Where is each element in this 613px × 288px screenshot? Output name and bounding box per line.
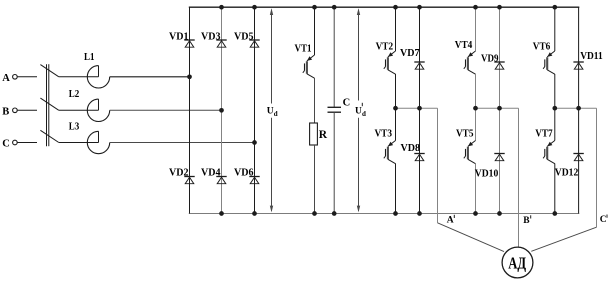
diode VD11 (573, 62, 583, 69)
node top rail x=221.5 (219, 5, 224, 10)
rectifier leg 3 wire (254, 7, 256, 213)
svg-text:АД: АД (508, 253, 526, 272)
label AD (508, 253, 526, 272)
transistor VT2 (384, 51, 396, 74)
diode VD2 (184, 177, 194, 184)
wire C terminal to switch (17, 142, 37, 144)
transistor VT6 (543, 51, 555, 74)
wire inverter midpoint leg 1 (396, 107, 438, 109)
svg-text:VT2: VT2 (376, 41, 394, 52)
svg-text:A: A (2, 73, 10, 84)
Ud2 arrow line (358, 10, 360, 212)
wire A terminal to switch (17, 76, 37, 78)
wire B terminal to switch (17, 109, 37, 111)
diode VD4 (216, 177, 226, 184)
node bottom rail x=254.5 (252, 211, 257, 216)
svg-text:C: C (343, 97, 351, 108)
svg-text:VD11: VD11 (580, 51, 603, 62)
frame right column VD11/VD12 (578, 7, 580, 214)
transistor VT7 (543, 141, 555, 164)
diode VD5 (249, 40, 259, 47)
wire C bottom (333, 112, 335, 213)
svg-text:L3: L3 (69, 122, 80, 133)
svg-text:VD5: VD5 (234, 31, 254, 42)
capacitor C plates (328, 107, 342, 112)
svg-text:U: U (267, 106, 274, 116)
wire VT1 collector (314, 7, 316, 55)
label B (2, 107, 9, 118)
node bottom rail x=395.5 (393, 211, 398, 216)
wire phase B' down (518, 108, 520, 247)
svg-text:VD1: VD1 (169, 31, 189, 42)
diode VD3 (216, 40, 226, 47)
label L2 (69, 89, 80, 100)
label VD2 (169, 168, 189, 179)
label Ud (267, 106, 278, 118)
switch blade phase A (40, 65, 58, 77)
node bottom rail x=499.5 (497, 211, 502, 216)
label C' (600, 215, 607, 226)
svg-text:VD2: VD2 (169, 168, 189, 179)
label A' (447, 215, 455, 226)
svg-text:VD9: VD9 (481, 54, 499, 65)
rectifier leg 2 wire (221, 7, 223, 213)
svg-text:VD8: VD8 (401, 143, 421, 154)
diode VD10 (494, 154, 504, 161)
svg-text:VD6: VD6 (234, 168, 254, 179)
node bottom rail x=221.5 (219, 211, 224, 216)
wire VT2 emitter to midpoint (395, 74, 397, 108)
reactor L3 (87, 131, 109, 153)
svg-text:d: d (362, 110, 366, 118)
label VT7 (535, 128, 553, 139)
bottom DC rail (189, 213, 580, 215)
svg-text:VT3: VT3 (375, 128, 393, 139)
wire midpoint to VT7 (554, 108, 556, 140)
label VT6 (533, 42, 551, 53)
wire phase C to bridge (110, 142, 255, 144)
terminal B (13, 108, 18, 113)
node top rail x=254.5 (252, 5, 257, 10)
node top rail x=475.5 (473, 5, 478, 10)
switch linkage bar (47, 64, 49, 146)
freewheel diode column VD9/VD10 (499, 7, 501, 213)
wire phase A' to motor (438, 223, 505, 252)
svg-text:d: d (274, 110, 278, 118)
node top rail x=395.5 (393, 5, 398, 10)
node bottom rail x=554.8 (552, 211, 557, 216)
rectifier leg 1 wire (189, 7, 191, 213)
svg-text:VD10: VD10 (475, 168, 499, 179)
label VT4 (455, 40, 473, 51)
svg-text:L1: L1 (84, 52, 95, 63)
label VT5 (456, 128, 474, 139)
svg-text:B: B (2, 107, 9, 118)
wire inverter midpoint leg 2 (476, 107, 519, 109)
svg-text:VD3: VD3 (201, 31, 221, 42)
node bottom rail x=314.5 (312, 211, 317, 216)
wire C top (333, 7, 335, 107)
Ud2 arrow heads (357, 8, 360, 212)
wire inverter midpoint leg 3 (555, 107, 597, 109)
wire VT3 emitter to bottom rail (395, 164, 397, 214)
svg-text:L2: L2 (69, 89, 80, 100)
node phase B junction (219, 108, 224, 113)
transistor VT5 (464, 141, 476, 164)
wire VT2 collector (395, 7, 397, 51)
wire switch to reactor L3 (59, 142, 99, 144)
wire VT4 emitter to midpoint (475, 74, 477, 108)
wire VT4 collector (475, 7, 477, 51)
terminal C (13, 140, 18, 145)
switch blade phase B (40, 98, 58, 110)
label VD12 (555, 167, 579, 178)
label Ud2 (355, 103, 366, 118)
node midpoint 1a (393, 106, 398, 111)
label R (319, 129, 328, 141)
svg-text:R: R (319, 129, 328, 141)
svg-text:C: C (2, 139, 10, 150)
wire phase A to bridge (110, 76, 190, 78)
motor AD circle (502, 247, 533, 278)
label VD9 (481, 54, 499, 65)
Ud arrow line (271, 10, 273, 212)
node phase A junction (187, 74, 192, 79)
reactor L2 (87, 99, 109, 121)
diode VD8 (414, 154, 424, 161)
wire VT7 emitter to bottom rail (554, 164, 556, 214)
wire midpoint to VT5 (475, 108, 477, 140)
svg-text:VD7: VD7 (400, 48, 420, 59)
wire VT6 emitter to midpoint (554, 74, 556, 108)
freewheel diode column VD7/VD8 (419, 7, 421, 213)
node midpoint 1b (417, 106, 422, 111)
diode VD6 (249, 177, 259, 184)
node top rail x=554.8 (552, 5, 557, 10)
transistor VT4 (464, 51, 476, 74)
node midpoint 2a (473, 106, 478, 111)
node midpoint 3b (576, 106, 581, 111)
label VD11 (580, 51, 603, 62)
svg-text:VT1: VT1 (295, 43, 312, 54)
wire phase C' down (596, 108, 598, 227)
label VD6 (234, 168, 254, 179)
transistor VT3 (384, 141, 396, 164)
node top rail x=314.5 (312, 5, 317, 10)
node bottom rail x=419.5 (417, 211, 422, 216)
wire R to bottom rail (314, 145, 316, 214)
top DC rail (189, 6, 580, 8)
node midpoint 3a (552, 106, 557, 111)
label B' (523, 215, 531, 226)
label VT1 (295, 43, 312, 54)
wire phase C' to motor (531, 227, 596, 251)
wire VT5 emitter to bottom rail (475, 164, 477, 214)
svg-text:VT7: VT7 (535, 128, 553, 139)
svg-text:B: B (523, 216, 530, 226)
label VD1 (169, 31, 189, 42)
node top rail x=419.5 (417, 5, 422, 10)
svg-text:VD4: VD4 (201, 168, 221, 179)
Ud arrow heads (270, 8, 273, 212)
label VD7 (400, 48, 420, 59)
label A (2, 73, 10, 84)
wire VT6 collector (554, 7, 556, 51)
label C (343, 97, 351, 108)
label L1 (84, 52, 95, 63)
diode VD1 (184, 40, 194, 47)
node top rail x=499.5 (497, 5, 502, 10)
node bottom rail x=334.2 (332, 211, 337, 216)
svg-text:VT6: VT6 (533, 42, 551, 53)
wire midpoint to VT3 (395, 108, 397, 140)
label VD5 (234, 31, 254, 42)
wire switch to reactor L1 (59, 76, 99, 78)
terminal A (13, 75, 18, 80)
node midpoint 2b (497, 106, 502, 111)
label VD10 (475, 168, 499, 179)
node bottom rail x=475.5 (473, 211, 478, 216)
label C (2, 139, 10, 150)
label L3 (69, 122, 80, 133)
diode VD7 (414, 62, 424, 69)
switch blade phase C (40, 130, 58, 142)
node phase C junction (252, 140, 257, 145)
svg-text:A: A (447, 215, 454, 225)
label VT3 (375, 128, 393, 139)
svg-text:U: U (355, 106, 362, 116)
label VD4 (201, 168, 221, 179)
label VD3 (201, 31, 221, 42)
wire phase A' down (437, 108, 439, 223)
label VT2 (376, 41, 394, 52)
node top rail x=334.2 (332, 5, 337, 10)
svg-text:VT5: VT5 (456, 128, 474, 139)
wire VT1 emitter to R (314, 78, 316, 123)
svg-text:VT4: VT4 (455, 40, 473, 51)
label VD8 (401, 143, 421, 154)
diode VD12 (573, 154, 583, 161)
diode VD9 (494, 62, 504, 69)
resistor R (310, 123, 318, 145)
wire phase B to bridge (110, 109, 222, 111)
transistor VT1 (303, 55, 315, 78)
reactor L1 (87, 66, 109, 88)
svg-text:VD12: VD12 (555, 167, 579, 178)
wire switch to reactor L2 (59, 109, 99, 111)
svg-text:C: C (600, 215, 607, 225)
